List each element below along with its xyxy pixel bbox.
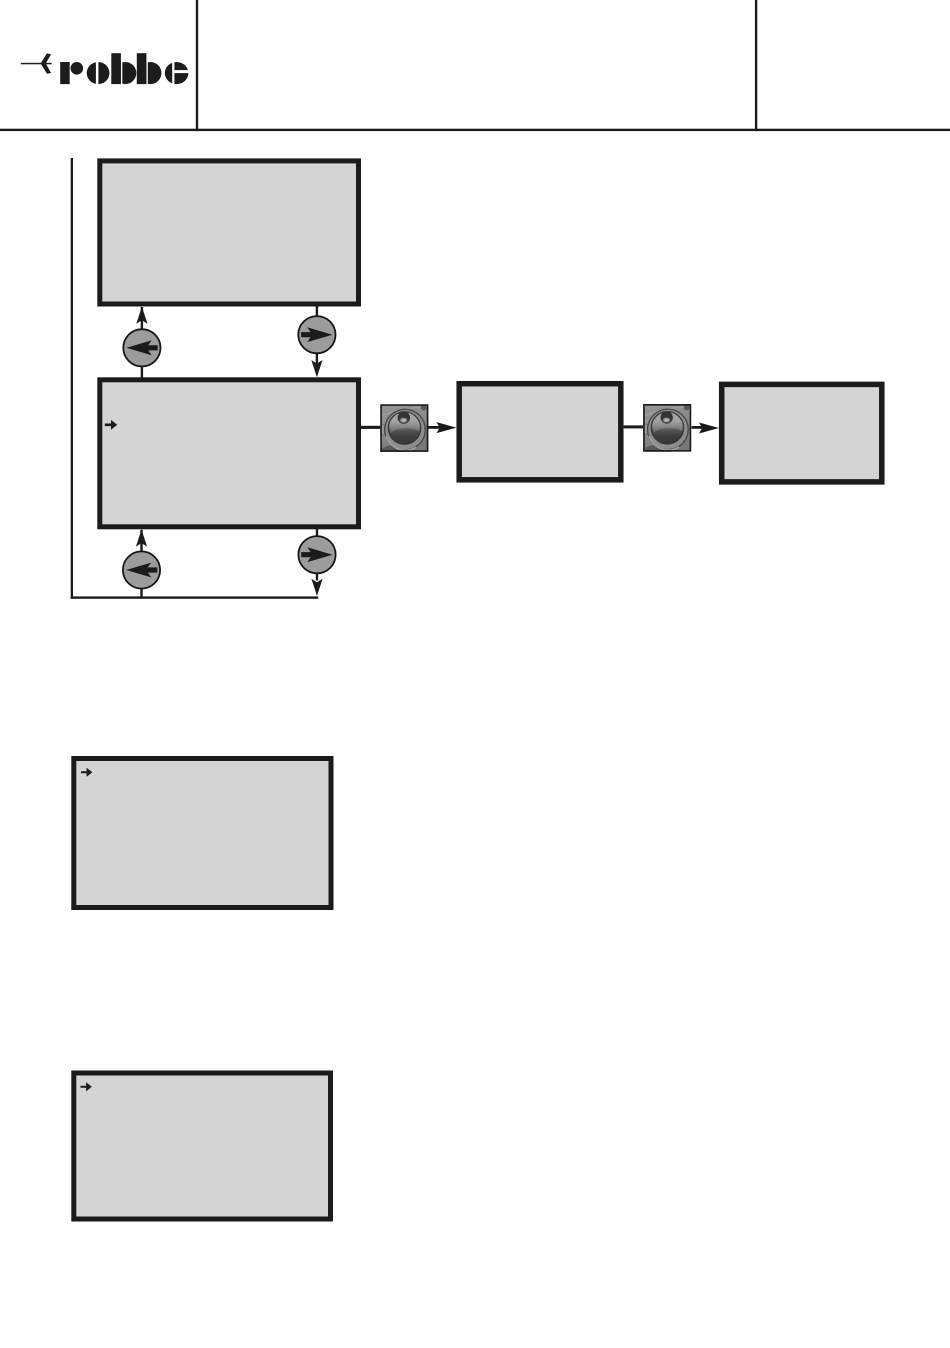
robbe logo bbox=[21, 53, 189, 85]
loop wire: bottom horizontal segment bbox=[71, 596, 319, 598]
arrowhead into display box 3 bbox=[437, 422, 457, 433]
arrow glyph inside display box 6 bbox=[81, 1082, 92, 1091]
edit button B4 (right arrow) bbox=[298, 536, 335, 573]
arrowhead into display box 4 bbox=[699, 423, 719, 434]
display box 5 bbox=[74, 759, 331, 908]
header column divider line (right) bbox=[755, 0, 757, 131]
wire stub from button B2 down bbox=[316, 353, 318, 365]
wire from rotary dial photo 1 toward display box 3 bbox=[428, 426, 444, 429]
logo letter o bbox=[87, 62, 110, 84]
edit button B1 (left arrow) bbox=[123, 329, 160, 366]
rotary dial photo 1 bbox=[372, 404, 428, 487]
edit button B2 (right arrow) bbox=[298, 316, 335, 353]
wire from display box 2 down to button B4 bbox=[316, 528, 318, 537]
wire from button B1 up into display box 1 bbox=[141, 307, 143, 330]
wire stub from button B3 down to loop wire bbox=[140, 588, 142, 599]
display box 6 bbox=[74, 1073, 331, 1219]
arrow glyph inside display box 2 bbox=[105, 420, 117, 430]
logo letter e bbox=[165, 62, 189, 84]
arrow glyph inside display box 5 bbox=[81, 768, 92, 777]
arrowhead up into display box 2 bbox=[136, 529, 147, 546]
arrowhead down into display box 2 bbox=[311, 360, 322, 377]
wire from button B3 up into display box 2 bbox=[140, 530, 142, 552]
wire from rotary dial photo 2 toward display box 4 bbox=[692, 426, 707, 429]
logo airplane fuselage line bbox=[21, 63, 52, 65]
rotary dial photo 2 bbox=[635, 404, 691, 487]
header horizontal rule bbox=[0, 129, 950, 131]
arrowhead up into display box 1 bbox=[136, 307, 147, 324]
display box 2 bbox=[100, 380, 359, 527]
wire from display box 2 to rotary dial photo 1 bbox=[361, 426, 381, 429]
wire from display box 3 to rotary dial photo 2 bbox=[624, 425, 644, 428]
wire stub from button B4 down bbox=[316, 573, 318, 581]
display box 4 bbox=[722, 384, 882, 482]
loop wire: left vertical segment bbox=[71, 158, 73, 599]
arrowhead down onto loop wire bbox=[311, 579, 322, 596]
edit button B3 (left arrow) bbox=[123, 551, 160, 588]
display box 1 bbox=[100, 161, 359, 304]
header column divider line (left) bbox=[196, 0, 198, 131]
logo airplane wing chevron bbox=[41, 53, 52, 73]
logo letter r bbox=[60, 62, 69, 84]
wire stub from button B1 down to display box 2 bbox=[141, 366, 143, 378]
display box 3 bbox=[459, 384, 621, 480]
logo letter b (second) bbox=[139, 62, 161, 84]
logo letter b (first) bbox=[114, 62, 136, 84]
wire from display box 1 down to button B2 bbox=[316, 306, 318, 317]
